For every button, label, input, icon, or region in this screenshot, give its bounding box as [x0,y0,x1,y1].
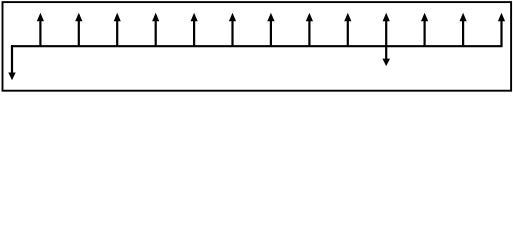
up arrow period 4 [152,13,159,47]
baseline (time axis) [11,45,503,47]
up arrow period 13 [498,13,505,47]
up arrow period 7 [267,13,274,47]
up arrow period 8 [306,13,313,47]
up arrow period 12 [460,13,467,47]
up arrow period 5 [191,13,198,47]
up arrow period 10 [383,13,390,47]
up arrow period 3 [114,13,121,47]
up arrow period 1 [37,13,44,47]
down arrow period 10 [382,46,390,66]
up arrow period 2 [75,13,82,47]
down arrow period 0 [8,45,15,80]
up arrow period 6 [229,13,236,47]
up arrow period 11 [421,13,428,47]
up arrow period 9 [344,13,351,47]
